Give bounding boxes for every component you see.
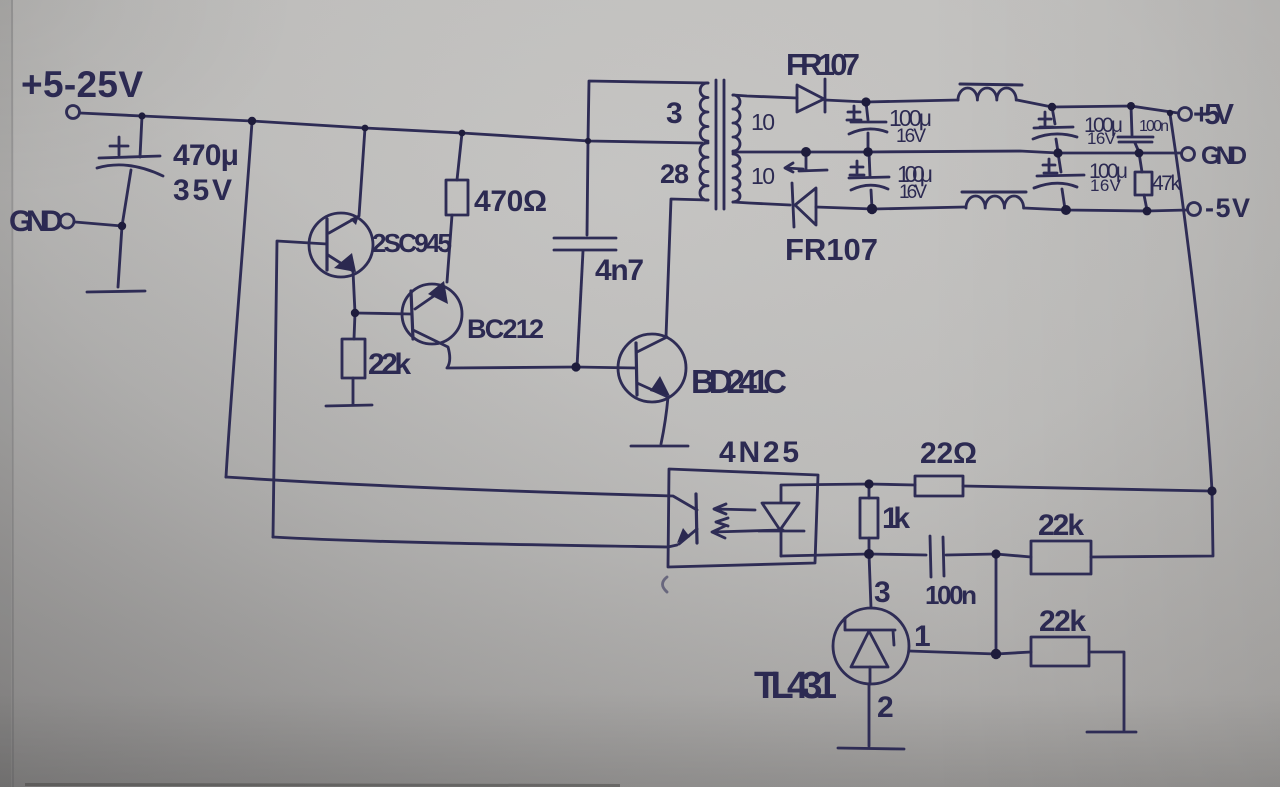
svg-text:22k: 22k: [1039, 605, 1086, 638]
svg-text:1: 1: [914, 620, 931, 653]
svg-text:3: 3: [666, 97, 683, 130]
svg-text:BD241C: BD241C: [691, 363, 787, 400]
svg-text:-5V: -5V: [1205, 193, 1250, 223]
svg-text:16V: 16V: [899, 182, 927, 203]
svg-text:+5-25V: +5-25V: [21, 64, 143, 105]
svg-text:3: 3: [874, 576, 891, 609]
svg-text:10: 10: [751, 109, 775, 135]
svg-text:47k: 47k: [1152, 172, 1182, 195]
svg-text:10: 10: [751, 163, 775, 189]
svg-text:100n: 100n: [1139, 118, 1169, 135]
svg-text:4N25: 4N25: [719, 436, 799, 469]
svg-text:100n: 100n: [925, 580, 977, 610]
svg-text:28: 28: [660, 159, 689, 189]
svg-text:16V: 16V: [1087, 129, 1117, 148]
svg-text:2: 2: [877, 691, 894, 724]
svg-text:1k: 1k: [882, 502, 910, 535]
svg-text:4n7: 4n7: [595, 254, 644, 287]
svg-text:22k: 22k: [368, 348, 411, 381]
svg-text:TL431: TL431: [754, 665, 837, 707]
svg-text:FR107: FR107: [785, 232, 878, 267]
svg-text:FR107: FR107: [786, 47, 860, 82]
svg-text:GND: GND: [1201, 142, 1247, 170]
svg-text:GND: GND: [9, 205, 63, 238]
svg-text:16V: 16V: [1090, 176, 1122, 195]
svg-text:22Ω: 22Ω: [920, 437, 977, 470]
svg-text:BC212: BC212: [467, 314, 544, 344]
svg-text:16V: 16V: [896, 126, 926, 147]
svg-text:35V: 35V: [173, 174, 232, 207]
svg-text:470Ω: 470Ω: [474, 185, 547, 218]
svg-text:2SC945: 2SC945: [372, 228, 452, 258]
svg-text:22k: 22k: [1038, 509, 1084, 542]
svg-text:+5V: +5V: [1193, 99, 1235, 131]
svg-text:470μ: 470μ: [173, 139, 239, 172]
